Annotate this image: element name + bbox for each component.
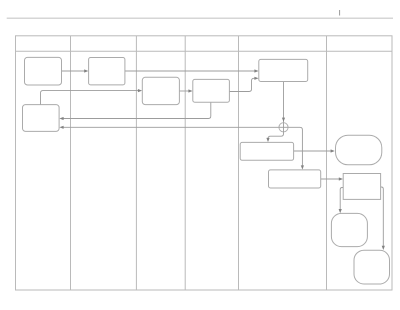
connector box7 to stadium A — [294, 149, 335, 152]
connector box3 to box6 — [125, 69, 259, 72]
task box7 — [240, 142, 293, 160]
gateway circle with plus — [279, 123, 288, 132]
lane divider 3 — [184, 36, 186, 290]
task box2 — [23, 105, 60, 132]
lane divider 4 — [238, 36, 240, 290]
connector gateway to box7 — [266, 127, 283, 142]
connector gateway to box8 — [284, 127, 305, 169]
connector box4 to box5 — [179, 89, 192, 92]
connector rect B to rounded C — [339, 188, 344, 214]
connector box6 to gateway — [282, 82, 285, 123]
connector gateway to box2 — [59, 126, 283, 129]
lane divider 5 — [326, 36, 328, 290]
connector box2 to box4 — [41, 89, 143, 105]
header rule — [7, 17, 393, 19]
connector rect B to rounded D — [381, 187, 385, 250]
task box8 — [269, 170, 321, 188]
rounded C — [331, 213, 367, 246]
lane divider 1 — [70, 36, 72, 290]
task box6 — [259, 59, 308, 81]
connector box8 to rect B — [321, 177, 343, 180]
lane header row line — [16, 50, 393, 52]
task box3 — [89, 58, 125, 85]
stadium A — [336, 135, 382, 165]
task box4 — [142, 77, 179, 104]
page number tick — [339, 10, 340, 16]
task box1 — [25, 57, 62, 85]
pool outer frame — [16, 36, 393, 290]
task box5 — [193, 79, 230, 102]
rect B — [343, 174, 380, 200]
rounded D — [354, 250, 390, 284]
connector box5 to box2 — [59, 102, 210, 120]
lane divider 2 — [135, 36, 137, 290]
connector box5 to box6 — [229, 77, 258, 92]
connector box1 to box3 — [62, 69, 89, 72]
